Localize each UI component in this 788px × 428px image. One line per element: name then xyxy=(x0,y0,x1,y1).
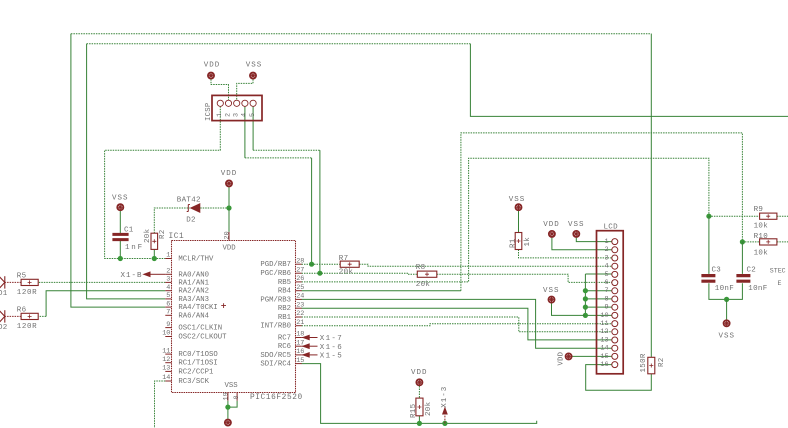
svg-text:1: 1 xyxy=(166,252,170,260)
junction X1-3/net xyxy=(442,421,447,426)
pin D1 to R5 xyxy=(6,281,22,283)
junction R9/C3 node xyxy=(706,214,711,219)
svg-text:D2: D2 xyxy=(186,216,196,224)
svg-text:E: E xyxy=(778,280,782,287)
wire R6 stub xyxy=(38,315,46,317)
wire VDD to R15 top xyxy=(418,386,420,398)
svg-text:VDD: VDD xyxy=(543,221,560,229)
svg-text:20k: 20k xyxy=(144,228,152,243)
svg-text:16: 16 xyxy=(600,361,608,369)
diode D2 BAT42 xyxy=(187,204,200,212)
connector LCD xyxy=(597,231,624,374)
svg-text:3: 3 xyxy=(233,113,241,117)
svg-text:7: 7 xyxy=(605,287,609,295)
wire RA4 frame top xyxy=(71,33,651,35)
svg-text:23: 23 xyxy=(296,301,304,309)
wire ICSP pin4 vertical xyxy=(244,106,246,158)
wire RA3 frame right to edge xyxy=(470,44,788,117)
wire RB3 to LCD pin 14 xyxy=(302,299,612,348)
svg-text:RB5: RB5 xyxy=(278,279,291,287)
supply VSS below caps xyxy=(723,320,730,327)
wire caps node to VSS xyxy=(726,299,728,319)
svg-text:25: 25 xyxy=(296,284,304,292)
svg-text:X1-B: X1-B xyxy=(121,272,143,280)
wire ICSP VDD to pin2 xyxy=(211,79,229,100)
svg-text:MCLR/THV: MCLR/THV xyxy=(178,256,214,264)
svg-text:R8: R8 xyxy=(416,264,426,272)
svg-text:C2: C2 xyxy=(747,267,757,275)
supply VSS above LCD xyxy=(573,231,580,238)
svg-text:R10: R10 xyxy=(754,233,769,241)
supply VDD above LCD xyxy=(549,231,556,238)
svg-text:20k: 20k xyxy=(339,268,354,276)
svg-text:150R: 150R xyxy=(640,353,648,372)
wire VDD down to node xyxy=(228,187,230,208)
svg-text:VDD: VDD xyxy=(411,369,428,377)
svg-text:4: 4 xyxy=(166,284,170,292)
svg-text:IC1: IC1 xyxy=(169,233,185,241)
pin D2 to R6 xyxy=(6,315,22,317)
svg-text:3: 3 xyxy=(605,254,609,262)
wire RA4 frame left xyxy=(71,34,165,307)
svg-text:RC2/CCP1: RC2/CCP1 xyxy=(178,368,214,376)
svg-text:13: 13 xyxy=(600,336,608,344)
resistor R3 20k pullup xyxy=(151,233,158,249)
wire node to R10 xyxy=(742,241,759,243)
svg-text:8: 8 xyxy=(605,295,609,303)
wire RB4 to bus riser xyxy=(302,290,461,292)
svg-text:RB4: RB4 xyxy=(278,288,292,296)
svg-text:VSS: VSS xyxy=(509,196,526,204)
junction C1/MCLR xyxy=(118,256,123,261)
junction PGC/RB6 xyxy=(317,271,322,276)
wire R8 to LCD pin 6 xyxy=(437,274,612,282)
wire RB1 to LCD pin 12 xyxy=(302,317,612,332)
wire node down to C2 xyxy=(741,242,743,274)
junction PGD/RB7 xyxy=(309,262,314,267)
svg-text:14: 14 xyxy=(162,374,170,382)
svg-text:RA6/AN4: RA6/AN4 xyxy=(178,312,209,320)
svg-text:24: 24 xyxy=(296,293,304,301)
supply VSS above R1 xyxy=(515,204,522,211)
svg-text:VSS: VSS xyxy=(225,382,239,390)
svg-text:C3: C3 xyxy=(712,267,722,275)
svg-text:RA1/AN1: RA1/AN1 xyxy=(178,279,209,287)
wire ICSP pin4 PGD horizontal xyxy=(245,157,312,159)
junction R10/C2 node xyxy=(740,239,745,244)
junction tie pin7 xyxy=(583,288,588,293)
junction tie pin8 xyxy=(583,296,588,301)
svg-text:VSS: VSS xyxy=(543,287,560,295)
wire ICSP pin4 PGD riser to RB7 xyxy=(311,158,313,264)
svg-text:RC7: RC7 xyxy=(278,335,291,343)
svg-text:20k: 20k xyxy=(416,281,431,289)
wire R6 to RA2 xyxy=(46,291,165,317)
capacitor C2 xyxy=(736,276,750,282)
capacitor C3 xyxy=(701,276,715,282)
svg-text:5: 5 xyxy=(166,292,170,300)
svg-text:10: 10 xyxy=(162,330,170,338)
svg-text:27: 27 xyxy=(296,266,304,274)
wire RB7 to R7 xyxy=(302,263,341,265)
diode D2L LED xyxy=(0,310,5,322)
wire ICSP pin5 PGC riser to RB6 xyxy=(319,150,321,273)
resistor R5 120R xyxy=(21,279,38,285)
svg-text:120R: 120R xyxy=(17,289,37,297)
svg-text:1: 1 xyxy=(605,238,609,246)
connector arrow X1-6 xyxy=(302,344,318,348)
wire RA3 frame top xyxy=(87,43,471,45)
svg-text:D1: D1 xyxy=(0,290,8,298)
wire C2 bottom to VSS node xyxy=(727,283,743,299)
svg-text:12: 12 xyxy=(600,328,608,336)
wire R2 bottom to LCD pin 16 xyxy=(586,365,652,391)
svg-text:7: 7 xyxy=(166,309,170,317)
svg-text:RA3/AN3: RA3/AN3 xyxy=(178,296,209,304)
resistor R1 1k xyxy=(515,233,522,250)
wire R15 bottom to net xyxy=(418,416,420,424)
wire ICSP pin5 PGC horizontal xyxy=(253,149,320,151)
supply VSS above ICSP xyxy=(250,72,257,79)
svg-text:2: 2 xyxy=(166,268,170,276)
svg-text:ICSP: ICSP xyxy=(205,103,213,121)
resistor R10 10k xyxy=(760,239,777,245)
svg-text:INT/RB0: INT/RB0 xyxy=(260,323,291,331)
svg-text:RA2/AN2: RA2/AN2 xyxy=(178,288,209,296)
svg-text:OSC1/CLKIN: OSC1/CLKIN xyxy=(178,325,222,333)
wire VSS to R1 top xyxy=(518,211,520,233)
svg-text:5: 5 xyxy=(605,271,609,279)
svg-text:1: 1 xyxy=(216,113,224,117)
svg-text:RC1/T1OSI: RC1/T1OSI xyxy=(178,360,217,368)
wire RB6 to R8 xyxy=(302,273,418,274)
wire ICSP pin5 vertical xyxy=(252,106,254,150)
wire LCD ground tie vertical xyxy=(585,274,611,315)
resistor R6 120R xyxy=(21,313,38,319)
svg-text:10: 10 xyxy=(600,312,608,320)
wire node down to C3 xyxy=(708,216,710,274)
svg-text:VSS: VSS xyxy=(246,62,263,70)
resistor R9 10k xyxy=(760,213,777,219)
svg-text:R7: R7 xyxy=(339,255,349,263)
connector ICSP header xyxy=(212,95,262,120)
wire R1 bottom to LCD pin 3 xyxy=(519,250,612,258)
wire C3 bottom to VSS node xyxy=(709,283,727,299)
wire C1 bottom to MCLR net xyxy=(119,241,121,259)
svg-text:8: 8 xyxy=(233,395,241,399)
svg-text:10k: 10k xyxy=(754,249,769,257)
junction VDD/BAT42/pin20 xyxy=(226,205,231,210)
wire R5 to RA1 xyxy=(38,281,165,283)
svg-text:PGC/RB6: PGC/RB6 xyxy=(260,270,291,278)
svg-text:R6: R6 xyxy=(17,306,27,314)
svg-text:C1: C1 xyxy=(124,226,134,234)
wire R9 to right edge xyxy=(777,215,788,217)
svg-text:120R: 120R xyxy=(17,323,37,331)
junction VSS pins xyxy=(225,405,230,410)
svg-text:6: 6 xyxy=(605,279,609,287)
svg-text:LCD: LCD xyxy=(604,224,619,232)
wire BAT42 anode to VDD node xyxy=(200,207,229,209)
svg-text:26: 26 xyxy=(296,275,304,283)
svg-text:20: 20 xyxy=(223,231,231,239)
svg-text:3: 3 xyxy=(166,276,170,284)
svg-text:10k: 10k xyxy=(754,223,769,231)
svg-text:4: 4 xyxy=(241,113,249,117)
supply VDD above R15 xyxy=(416,379,423,386)
svg-text:1nF: 1nF xyxy=(125,244,144,252)
svg-text:R5: R5 xyxy=(17,272,27,280)
junction tie pin10 xyxy=(583,313,588,318)
svg-text:4: 4 xyxy=(605,263,609,271)
svg-text:15: 15 xyxy=(600,353,608,361)
wire RA3 frame left xyxy=(87,44,166,299)
junction C2/C3 VSS node xyxy=(724,297,729,302)
svg-text:SDI/RC4: SDI/RC4 xyxy=(260,361,291,369)
svg-text:9: 9 xyxy=(166,321,170,329)
svg-text:VSS: VSS xyxy=(112,195,129,203)
svg-text:R9: R9 xyxy=(754,206,764,214)
svg-text:RC3/SCK: RC3/SCK xyxy=(178,378,209,386)
wire RB2 to LCD pin 13 xyxy=(302,308,612,340)
svg-text:PIC16F2520: PIC16F2520 xyxy=(250,394,303,402)
wire VSS to ground tie xyxy=(552,303,586,315)
resistor R8 20k xyxy=(417,271,437,277)
svg-text:VDD: VDD xyxy=(223,244,237,252)
svg-text:R15: R15 xyxy=(410,403,418,418)
wire RA4 frame right down to R2 xyxy=(650,34,652,358)
svg-text:11: 11 xyxy=(162,347,170,355)
connector arrow X1-7 xyxy=(302,335,318,339)
svg-text:D2: D2 xyxy=(0,324,8,332)
wire VSS to LCD pin 1 xyxy=(576,238,611,242)
svg-text:14: 14 xyxy=(600,345,608,353)
wire R10 to right edge xyxy=(777,241,788,243)
svg-text:13: 13 xyxy=(162,365,170,373)
wire RB0 to LCD pin 11 xyxy=(302,324,612,326)
supply VSS below chip xyxy=(225,419,232,426)
wire R7 to LCD pin 4 xyxy=(359,264,611,266)
wire VSS to C1 top xyxy=(119,211,121,233)
svg-text:R1: R1 xyxy=(509,238,517,248)
connector arrow X1-B xyxy=(144,272,166,276)
svg-text:10nF: 10nF xyxy=(715,285,734,293)
connector arrow X1-5 xyxy=(302,353,318,357)
svg-text:15: 15 xyxy=(296,357,304,365)
wire RB5 over top bus to R9 node xyxy=(302,158,709,282)
wire R3 top to BAT42 cathode xyxy=(154,208,190,233)
wire R3 bottom to MCLR net xyxy=(153,249,155,258)
supply VSS above C1 xyxy=(117,204,124,211)
svg-text:RC6: RC6 xyxy=(278,343,291,351)
svg-text:22: 22 xyxy=(296,310,304,318)
svg-text:X1-7: X1-7 xyxy=(320,335,343,343)
junction tie pin9 xyxy=(583,305,588,310)
wire ICSP VSS to pin3 xyxy=(237,79,253,100)
svg-text:BAT42: BAT42 xyxy=(177,196,201,204)
svg-text:X1-5: X1-5 xyxy=(320,353,343,361)
svg-text:6: 6 xyxy=(166,300,170,308)
svg-text:SDO/RC5: SDO/RC5 xyxy=(260,352,291,360)
supply VDD above chip xyxy=(226,180,233,187)
svg-text:RB2: RB2 xyxy=(278,305,291,313)
wire chip pins 19+8 to VSS xyxy=(228,401,237,419)
svg-text:5: 5 xyxy=(249,113,257,117)
svg-text:1k: 1k xyxy=(524,237,532,247)
svg-text:VDD: VDD xyxy=(221,170,238,178)
svg-text:R2: R2 xyxy=(159,229,167,239)
supply VDD above ICSP xyxy=(208,72,215,79)
svg-text:RA0/AN0: RA0/AN0 xyxy=(178,271,209,279)
svg-text:X1-6: X1-6 xyxy=(320,344,343,352)
IC U1 PIC16F2520 body xyxy=(172,241,296,393)
svg-text:VSS: VSS xyxy=(719,333,736,341)
wire VDD to LCD pin 15 xyxy=(572,355,612,357)
svg-text:2: 2 xyxy=(224,113,232,117)
wire node down to chip pin 20 xyxy=(228,208,230,232)
junction R15/net xyxy=(417,421,422,426)
svg-text:21: 21 xyxy=(296,319,304,327)
capacitor C1 xyxy=(112,234,128,239)
svg-text:OSC2/CLKOUT: OSC2/CLKOUT xyxy=(178,334,227,342)
svg-text:VDD: VDD xyxy=(204,62,221,70)
svg-text:2: 2 xyxy=(605,246,609,254)
supply VSS at LCD tie xyxy=(548,296,555,303)
resistor R2 150R xyxy=(648,357,655,374)
wire ICSP pin1 to MCLR net xyxy=(105,106,221,258)
junction R3/MCLR xyxy=(152,256,157,261)
svg-text:X1-3: X1-3 xyxy=(441,386,449,408)
svg-text:10nF: 10nF xyxy=(748,285,767,293)
svg-text:STEC: STEC xyxy=(770,267,786,274)
svg-text:RC0/T1OSO: RC0/T1OSO xyxy=(178,351,218,359)
svg-text:R2: R2 xyxy=(658,357,666,367)
svg-text:20k: 20k xyxy=(425,401,433,416)
wire SDI/RC4 bottom run xyxy=(302,364,537,424)
svg-text:12: 12 xyxy=(162,356,170,364)
wire VDD to LCD pin 2 xyxy=(552,238,612,250)
resistor R15 20k xyxy=(416,398,423,416)
svg-text:RB1: RB1 xyxy=(278,314,292,322)
svg-text:PGD/RB7: PGD/RB7 xyxy=(260,261,291,269)
wire node to R9 xyxy=(709,215,760,217)
svg-text:28: 28 xyxy=(296,257,304,265)
svg-text:19: 19 xyxy=(223,392,231,400)
svg-text:11: 11 xyxy=(600,320,608,328)
svg-text:VSS: VSS xyxy=(568,221,585,229)
svg-text:RA4/T0CKI: RA4/T0CKI xyxy=(178,304,217,312)
resistor R7 20k xyxy=(340,261,359,267)
svg-text:PGM/RB3: PGM/RB3 xyxy=(260,296,291,304)
diode D1 LED xyxy=(0,276,5,288)
svg-text:VDD: VDD xyxy=(558,352,566,366)
wire RC3 down to bottom edge xyxy=(155,381,166,428)
svg-text:9: 9 xyxy=(605,304,609,312)
supply VDD at LCD pin15 xyxy=(565,353,572,360)
wire RB4 bus to R10 node xyxy=(461,133,743,291)
connector arrow X1-3 xyxy=(443,408,447,423)
